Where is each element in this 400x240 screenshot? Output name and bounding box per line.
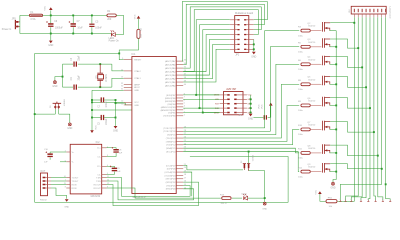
wire VCC rail after fuse	[43, 14, 107, 16]
svg-text:XTAL2: XTAL2	[134, 70, 141, 73]
wire PD5 elbow down	[183, 172, 192, 196]
node lamp net flag 6	[375, 200, 377, 201]
resistor RN1 10k	[326, 197, 337, 208]
pin (INT0)PD2 16	[166, 181, 186, 184]
svg-text:100u: 100u	[298, 89, 304, 91]
svg-text:JP5: JP5	[12, 17, 17, 20]
wire JP2 right pin 4 over the top to PA4	[183, 10, 258, 72]
svg-text:(TDI)PC5: (TDI)PC5	[167, 135, 177, 137]
wire VCC vertical left of MCU	[91, 90, 93, 130]
wire bottom riser right	[190, 157, 288, 203]
svg-text:11: 11	[121, 103, 123, 105]
wire GND vertical	[115, 100, 117, 126]
svg-text:(MISO)PB6: (MISO)PB6	[165, 98, 176, 100]
wire ISP row 4 to PB	[183, 107, 219, 109]
pin OUT 1	[43, 177, 51, 179]
svg-text:(OC1A)PD5: (OC1A)PD5	[165, 171, 177, 174]
pin GND 11	[121, 103, 139, 107]
pin (ADC4)PA4 36	[165, 70, 186, 73]
transistor Q8 BUZ10	[307, 144, 330, 154]
wire Q7 drain to lamp line 6	[330, 122, 374, 133]
wire ground rail bottom of caps	[20, 33, 111, 35]
crystal Q1 16MHz	[96, 64, 108, 87]
svg-text:GND: GND	[67, 128, 72, 130]
svg-text:16 MHz: 16 MHz	[106, 73, 108, 82]
svg-text:(AIN0/INT2)PB2: (AIN0/INT2)PB2	[161, 109, 177, 112]
svg-text:BUZ10: BUZ10	[308, 59, 316, 61]
pin MAX232 R1IN	[64, 183, 77, 186]
svg-text:(ADC1)PA1: (ADC1)PA1	[165, 81, 177, 84]
svg-text:RESET: RESET	[134, 60, 142, 62]
op-amp U2 interface IC2 MAX232 box	[70, 141, 102, 198]
capacitor C7 10uF	[69, 15, 84, 33]
pin (ADC1)PA1 39	[165, 81, 186, 84]
wire R2OUT to R13	[107, 188, 221, 198]
wire PC6 to Q3 gate	[183, 47, 299, 131]
svg-text:RN1: RN1	[328, 197, 333, 199]
wire R12 to gate	[310, 171, 321, 173]
svg-text:VCC: VCC	[44, 6, 46, 11]
svg-text:1000uF: 1000uF	[55, 27, 63, 29]
wire PC0 tap to piezo top	[248, 152, 250, 164]
node lamp net flag 7	[382, 200, 384, 201]
node lamp net flag 2	[345, 200, 347, 201]
pin (SS)PB4 5	[168, 102, 185, 105]
svg-text:3: 3	[184, 108, 185, 110]
node lamp net flag 8	[389, 200, 391, 201]
pin JP2 row 3	[230, 29, 254, 30]
resistor R13 200	[220, 194, 231, 205]
pin (OC1A)PD5 19	[165, 171, 186, 174]
pin lamp 4	[365, 9, 368, 17]
ground GND mosfet rail	[332, 182, 335, 185]
wire Q6 source to ground rail	[330, 104, 337, 106]
LED2	[241, 194, 247, 200]
wire JP2 left pin 5 to PA3	[183, 39, 230, 75]
svg-text:5: 5	[360, 199, 361, 201]
capacitor C10 1uF at V+	[44, 149, 66, 164]
wire C3 to xtal2	[78, 63, 112, 65]
transistor Q6 BUZ10	[307, 97, 330, 107]
pin JP2 row 4	[230, 34, 254, 35]
wire tap at 110	[92, 109, 132, 111]
svg-text:VCC: VCC	[261, 104, 263, 109]
svg-text:(ICP)PD6: (ICP)PD6	[167, 169, 177, 171]
junction C1 right	[115, 99, 117, 101]
svg-text:14: 14	[64, 176, 66, 178]
svg-text:(SDA)PC1: (SDA)PC1	[166, 147, 177, 150]
wire R6 to gate	[310, 63, 321, 65]
svg-text:4: 4	[350, 199, 351, 201]
pin lamp 8	[380, 9, 383, 17]
pin (OC2)PD7 21	[166, 164, 186, 167]
supply VCC symbol top-left	[44, 6, 52, 16]
junction H110 tap	[91, 109, 93, 111]
pin lamp 6	[372, 9, 375, 17]
svg-text:5: 5	[107, 173, 108, 175]
svg-text:R1IN: R1IN	[72, 184, 77, 186]
wire to gnd of xtal caps	[55, 77, 63, 81]
resistor R2 10k	[137, 27, 143, 38]
op-amp U1 microcontroller IC1 MEGA32-P box	[131, 52, 176, 199]
svg-text:6: 6	[367, 199, 368, 201]
transistor Q9 BUZ10	[307, 163, 330, 173]
svg-text:RS232: RS232	[40, 200, 47, 202]
wire lamp line 2 vertical	[346, 17, 359, 200]
capacitor C8 1uF	[107, 147, 123, 157]
pin JP2 row 2	[230, 24, 254, 25]
svg-text:R2IN: R2IN	[72, 188, 77, 190]
pin lamp 1	[353, 9, 356, 17]
wire R8 to gate	[310, 83, 321, 85]
wire bottom rail	[35, 201, 288, 203]
junction C1 left	[91, 99, 93, 101]
pin (AIN1/OC0)PB3 4	[161, 105, 185, 108]
wire R13 to LED2	[232, 197, 242, 199]
svg-text:9: 9	[107, 187, 108, 189]
wire JP2 right pin 3 over the top to PA5	[183, 7, 261, 68]
svg-text:100u: 100u	[298, 176, 304, 178]
pin GND 31	[121, 89, 139, 93]
wire lamp line 4 vertical	[361, 17, 366, 200]
svg-text:GND: GND	[64, 207, 69, 209]
junction GND pin jog	[115, 102, 117, 104]
node lamp net flag 5	[367, 200, 369, 201]
node lamp net flag 4	[360, 200, 362, 201]
transistor Q7 BUZ10	[307, 121, 330, 131]
svg-text:R2OUT: R2OUT	[94, 188, 102, 190]
junction reset button tap	[34, 113, 36, 115]
pin MAX232 T1IN	[96, 176, 109, 179]
resistor R6 100 ohm gate of Q4	[298, 60, 310, 71]
svg-text:7: 7	[375, 199, 376, 201]
wire JP2 left pin 7 to PA1	[183, 49, 230, 82]
wire xtal left vertical	[62, 64, 64, 87]
wire button legs down	[54, 109, 56, 114]
svg-text:31: 31	[121, 89, 123, 91]
svg-text:1: 1	[107, 146, 108, 148]
capacitor C3 22pF	[71, 55, 80, 67]
fuse F1 0.5A	[29, 11, 42, 21]
pin lamp 2	[357, 9, 360, 17]
svg-text:Multiwires board: Multiwires board	[235, 12, 254, 15]
resistor R8 100 ohm gate of Q5	[298, 80, 310, 91]
pin MAX232 C1-	[97, 155, 108, 158]
svg-text:BUZ10: BUZ10	[308, 42, 316, 44]
junction at C6 top	[50, 14, 52, 16]
wire Q8 drain to lamp line 7	[330, 145, 378, 156]
wire R9 to gate	[310, 104, 321, 106]
wire JP2 right pins 5-7 to ground	[253, 39, 255, 51]
pin ISP row 4	[215, 107, 253, 110]
svg-text:GND: GND	[248, 118, 253, 120]
svg-text:3: 3	[107, 155, 108, 157]
svg-text:AREF: AREF	[134, 84, 140, 87]
wire Q3 drain to lamp line 2	[330, 39, 358, 48]
ground GND reset button	[68, 123, 71, 126]
svg-text:17: 17	[184, 177, 186, 179]
wire JP2 left pin 4 to PA4	[183, 35, 230, 72]
wire ISP row 5 to PB	[183, 112, 219, 114]
wire JP2 left pin 2 to ISP	[200, 25, 230, 108]
pin (TCK)PC2 24	[166, 143, 186, 146]
wire Q9 source to ground rail	[330, 171, 337, 173]
wire Q8 source to ground rail	[330, 152, 337, 154]
svg-text:4: 4	[107, 165, 108, 167]
svg-text:(ADC3)PA3: (ADC3)PA3	[165, 74, 177, 77]
ground GND below JP2	[252, 52, 256, 55]
svg-text:22pF: 22pF	[79, 75, 81, 81]
pin (SCL)PC0 22	[166, 150, 186, 153]
svg-text:4: 4	[184, 105, 185, 107]
wire VCC pin 10	[92, 101, 124, 103]
switch S1 reset button	[50, 100, 64, 110]
svg-text:C1-: C1-	[97, 156, 101, 158]
pin MAX232 C2-	[97, 173, 108, 176]
svg-text:6: 6	[184, 99, 185, 101]
wire lamp line 1 vertical	[337, 17, 354, 201]
wire lamp line 7 vertical	[378, 17, 383, 200]
resistor R11 100 ohm gate of Q8	[298, 149, 310, 160]
wire xtal2 jog	[112, 64, 124, 71]
svg-text:13: 13	[121, 77, 123, 79]
svg-text:(RXD)PD0: (RXD)PD0	[166, 189, 177, 191]
wire lamp line 6 vertical	[374, 17, 376, 200]
pin VCC 10	[121, 101, 139, 105]
svg-text:2: 2	[65, 151, 66, 153]
wire Q9 drain to lamp line 8	[330, 164, 382, 169]
wire Q4 source to ground rail	[330, 63, 337, 65]
wire PC5 to Q4 gate	[183, 64, 299, 134]
capacitor C1 100nF	[92, 97, 116, 107]
transistor Q5 BUZ10	[307, 76, 330, 86]
wire lamp line 3 vertical	[351, 17, 362, 200]
svg-text:(TOSC2)PC7: (TOSC2)PC7	[163, 128, 176, 130]
pin (ADC3)PA3 37	[165, 74, 186, 77]
capacitor C2 100nF	[92, 115, 116, 125]
pin MAX232 R2IN	[65, 187, 77, 190]
wire power-in vertical	[19, 15, 21, 33]
connector JP4 lamp header	[349, 6, 392, 19]
junction crystal bottom	[99, 86, 101, 88]
svg-text:100u: 100u	[298, 52, 304, 54]
connector OUT RS232	[40, 171, 48, 202]
junction C2 right	[115, 117, 117, 119]
wire GND pin 31 to vcc vertical	[92, 89, 124, 91]
svg-text:BUZ10: BUZ10	[308, 124, 316, 126]
svg-text:LED2: LED2	[241, 194, 247, 196]
resistor R9 100 ohm gate of Q6	[298, 101, 310, 112]
svg-text:Power On: Power On	[109, 40, 120, 43]
connector JP5 Power In	[2, 17, 20, 31]
ground GND led2	[262, 198, 267, 210]
wire JP2 left pin 1 to ISP	[196, 20, 230, 95]
pin (TXD)PD1 15	[166, 184, 186, 187]
svg-text:VCC: VCC	[96, 125, 98, 130]
wire ISP gnd chain	[250, 95, 252, 114]
svg-text:RESET: RESET	[62, 100, 64, 107]
svg-text:8: 8	[382, 199, 383, 201]
pin JP2 row 5	[230, 39, 254, 40]
svg-text:T1OUT: T1OUT	[72, 177, 80, 179]
junction VCC pin tap	[91, 101, 93, 103]
svg-text:(T1)PB1: (T1)PB1	[168, 113, 177, 115]
svg-text:10: 10	[107, 180, 109, 182]
svg-text:3: 3	[345, 199, 346, 201]
svg-text:12: 12	[107, 183, 109, 185]
wire V- stub	[60, 161, 66, 163]
pin MAX232 T1OUT	[64, 176, 79, 179]
svg-text:(AIN1/OC0)PB3: (AIN1/OC0)PB3	[161, 106, 177, 109]
wire C4 to xtal1	[78, 86, 112, 88]
wire C4 left	[63, 86, 74, 88]
wire left frame vertical	[34, 53, 36, 202]
wire OUT1 to T1OUT	[51, 177, 66, 179]
ground GND below ISP	[249, 114, 253, 117]
svg-text:40: 40	[184, 84, 186, 86]
wire C3 left	[63, 63, 74, 65]
pin lamp 9	[384, 9, 387, 17]
pin OUT 4	[43, 187, 51, 189]
ground GND below C2	[114, 126, 118, 129]
pin (OC1B)PD4 18	[165, 174, 186, 177]
pin ISP row 1	[214, 94, 252, 97]
svg-text:100u: 100u	[298, 69, 304, 71]
wire R1 to corner	[116, 15, 124, 34]
ground GND below caps	[48, 34, 53, 48]
supply VCC above R2	[134, 14, 140, 29]
junction C7 bottom	[72, 33, 74, 35]
capacitor C9 1uF	[107, 166, 122, 175]
junction C5 bottom	[91, 33, 93, 35]
capacitor C5 100nF	[89, 15, 102, 33]
svg-text:VCC: VCC	[316, 190, 318, 195]
pin (MOSI)PB5 6	[165, 99, 185, 102]
pin lamp 5	[369, 9, 372, 17]
wire lamp line 9 vertical	[386, 17, 391, 200]
svg-text:7: 7	[184, 96, 185, 98]
svg-text:(ADC4)PA4: (ADC4)PA4	[165, 70, 177, 73]
wire JP2 left pin 3 to ISP	[203, 30, 230, 113]
svg-text:(OC1B)PD4: (OC1B)PD4	[165, 175, 177, 177]
svg-text:200 U: 200 U	[221, 203, 227, 205]
svg-text:IC2: IC2	[96, 141, 101, 144]
pin ISP row 2	[215, 99, 252, 102]
pin (INT1)PD3 17	[166, 177, 186, 180]
wire R2 to reset node	[119, 38, 138, 59]
junction C6 bottom	[50, 33, 52, 35]
svg-text:GND: GND	[113, 131, 118, 133]
wire PC1 to Q8 gate	[183, 148, 299, 153]
svg-text:BUZ10: BUZ10	[308, 167, 316, 169]
svg-text:GND: GND	[251, 56, 256, 58]
connector JP2 Multiwires board	[235, 12, 254, 56]
wire Q3 source to ground rail	[330, 46, 337, 48]
wire R5 to gate	[310, 46, 321, 48]
svg-text:AVR ISP: AVR ISP	[226, 87, 236, 91]
supply VCC at ISP	[259, 103, 273, 118]
pin JP2 row 7	[230, 49, 254, 50]
svg-text:11: 11	[107, 176, 109, 178]
svg-text:VCC: VCC	[248, 95, 253, 97]
svg-text:(ADC0)PA0: (ADC0)PA0	[165, 84, 177, 87]
svg-text:BUZ10: BUZ10	[308, 79, 316, 81]
svg-text:Lamp board: Lamp board	[389, 7, 392, 19]
pin (RXD)PD0 14	[166, 187, 186, 190]
node lamp net flag 3	[350, 200, 352, 201]
svg-text:8: 8	[184, 94, 185, 96]
svg-text:10uF: 10uF	[77, 27, 83, 29]
junction LED2 gnd node	[264, 197, 266, 199]
svg-text:AVCC: AVCC	[134, 86, 140, 89]
pin MAX232 T2IN	[96, 180, 109, 183]
svg-text:R1OUT: R1OUT	[94, 184, 102, 186]
resistor R3 100 ohm gate of Q2	[298, 26, 310, 37]
LED1 Power On	[109, 30, 120, 42]
wire R11 to gate	[310, 152, 321, 154]
pin MAX232 T2OUT	[65, 180, 79, 183]
svg-text:33: 33	[184, 60, 186, 62]
pin (ADC0)PA0 40	[165, 84, 186, 87]
svg-text:BUZ10: BUZ10	[308, 100, 316, 102]
wire button right to gnd	[59, 114, 70, 123]
pin MAX232 V+	[65, 151, 75, 154]
wire piezo right down	[249, 171, 265, 198]
svg-text:100u: 100u	[298, 134, 304, 136]
pin AVCC 30	[121, 86, 140, 90]
pin (SCK)PB7 8	[166, 94, 185, 97]
wire JP2 right pin 1 over the top to PA7	[182, 2, 267, 62]
pin MAX232 C1+	[97, 146, 108, 149]
svg-text:T1IN: T1IN	[96, 177, 101, 179]
wire OUT2 to T2OUT	[51, 180, 66, 182]
junction lamp line 9 crossing	[385, 183, 387, 185]
svg-text:9: 9	[122, 58, 123, 60]
svg-text:C2-: C2-	[97, 174, 101, 176]
wire TXD PD1 to MAX232 T1IN	[107, 178, 191, 197]
pin (TDO)PC4 26	[166, 137, 186, 140]
pin AREF 32	[121, 83, 141, 87]
svg-text:BUZ10: BUZ10	[308, 26, 316, 28]
connector JP1 AVR ISP	[224, 87, 244, 117]
svg-text:(TOSC1)PC6: (TOSC1)PC6	[163, 131, 176, 133]
svg-text:V-: V-	[72, 162, 74, 164]
pin MAX232 C2+	[97, 165, 108, 168]
svg-text:Power In: Power In	[2, 28, 12, 31]
svg-text:GND: GND	[134, 105, 139, 107]
supply VCC below MCU pointing down	[90, 125, 97, 133]
resistor R1 200	[107, 10, 116, 21]
pin (ICP)PD6 20	[167, 167, 186, 170]
pin ISP row 5	[214, 112, 253, 115]
pin lamp 7	[376, 9, 379, 17]
wire R10 to gate	[310, 128, 321, 130]
wire Q6 drain to lamp line 5	[330, 98, 370, 109]
svg-text:100u: 100u	[298, 35, 304, 37]
svg-text:100nF: 100nF	[95, 27, 102, 29]
capacitor C11 ISP decoupling	[253, 115, 270, 119]
svg-text:(ADC2)PA2: (ADC2)PA2	[165, 77, 177, 80]
wire lamp line 5 vertical	[368, 17, 370, 200]
pin (ADC7)PA7 33	[165, 60, 186, 63]
wire GND pin 11 jog	[116, 103, 132, 105]
pin JP2 row 1	[230, 19, 254, 20]
svg-text:GND: GND	[52, 86, 57, 88]
svg-text:20: 20	[184, 167, 186, 169]
svg-text:MAX232: MAX232	[91, 195, 101, 198]
wire reset long horizontal	[35, 52, 120, 54]
svg-text:8: 8	[65, 187, 66, 189]
